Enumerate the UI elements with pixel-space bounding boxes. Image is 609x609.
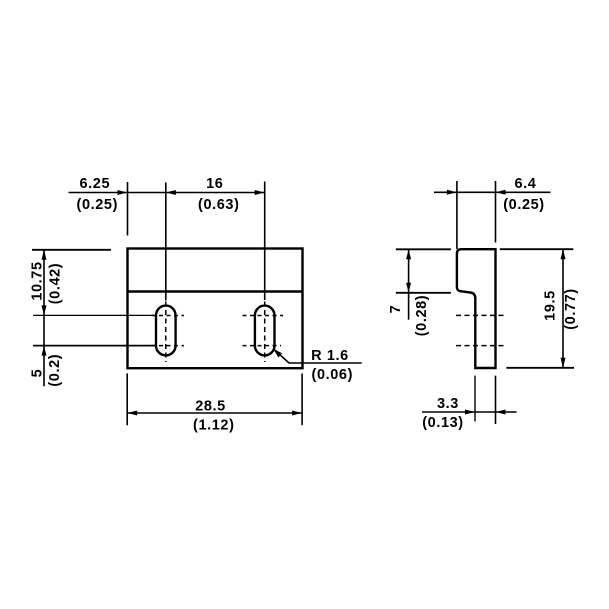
arrow tip 495.5 pointing left (outside)	[496, 410, 506, 415]
leader line for R 1.6 (diagonal + horizontal)	[274, 349, 362, 363]
slot S1 (left obround hole)	[156, 306, 176, 356]
svg-text:7: 7	[388, 305, 404, 314]
bottom dimension 28.5 extension line left	[126, 373, 128, 425]
bend/step line across front view	[128, 290, 303, 292]
side view profile outline with step	[457, 249, 496, 368]
svg-text:(0.2): (0.2)	[47, 354, 63, 387]
arrow left of 28.5	[127, 411, 137, 416]
extension of part top edge to the left	[32, 249, 111, 251]
svg-text:16: 16	[206, 176, 223, 192]
extension of side view bottom edge to the right	[506, 367, 574, 369]
extension line above left edge of side view	[456, 181, 458, 249]
dimension 6.25/16 shared dimension line	[69, 192, 265, 194]
arrow tip 495.5 pointing left (outside)	[496, 190, 506, 195]
svg-text:3.3: 3.3	[437, 396, 459, 412]
svg-text:19.5: 19.5	[542, 290, 558, 321]
centerline S1 horizontal dashes, bottom arc	[152, 345, 185, 347]
slot S2 (right obround hole)	[255, 306, 275, 356]
svg-text:(0.63): (0.63)	[198, 197, 239, 213]
dimension 3.3 extension line right (x=495.5)	[495, 376, 497, 424]
dimension 7 vertical line	[408, 249, 410, 319]
part outline: front view rectangle	[128, 249, 303, 369]
extension line of step at y=292.8	[396, 292, 451, 294]
svg-text:(0.06): (0.06)	[312, 367, 353, 383]
extension of side view top edge to the right	[500, 248, 574, 250]
svg-text:5: 5	[30, 369, 46, 378]
centerline S2 horizontal dashes, top arc	[243, 315, 284, 317]
arrow tip 475 pointing right (outside)	[465, 410, 475, 415]
dimension 3.3 extension line left (x=475)	[474, 376, 476, 422]
centerline S2 horizontal dashes, bottom arc	[243, 345, 282, 347]
arrow down at bottom of 19.5	[561, 358, 566, 368]
svg-text:(1.12): (1.12)	[193, 418, 234, 434]
arrow up at top of 19.5	[561, 249, 566, 259]
dimension line 28.5	[127, 412, 302, 414]
extension line at slot bottom-arc center y=345.6	[33, 345, 155, 347]
arrow up at top of 7	[406, 250, 411, 260]
svg-text:R 1.6: R 1.6	[311, 348, 349, 364]
bottom dimension 28.5 extension line right	[301, 373, 303, 425]
svg-text:6.25: 6.25	[79, 176, 110, 192]
arrow tip 456.9 pointing right (outside)	[447, 190, 457, 195]
svg-text:6.4: 6.4	[515, 176, 537, 192]
arrow down at bottom of 10.75	[42, 305, 47, 315]
svg-text:28.5: 28.5	[195, 398, 226, 414]
side view dashed centerline at y=315.4	[456, 314, 505, 316]
svg-text:10.75: 10.75	[30, 261, 46, 300]
svg-text:(0.42): (0.42)	[47, 263, 63, 304]
extension line at part left edge (x=127.5)	[127, 182, 129, 236]
centerline S1 vertical (solid extension from top dim, then dashed)	[165, 183, 167, 301]
leader arrowhead pointing at slot S2 bottom arc	[273, 349, 282, 358]
arrow up at top of 10.75	[42, 250, 47, 260]
svg-text:(0.25): (0.25)	[77, 197, 118, 213]
left dimension column vertical line (10.75 and 5)	[43, 250, 45, 387]
arrow tip at 127.5 pointing right (outside)	[118, 190, 128, 195]
side view dashed centerline at y=345.6	[456, 345, 505, 347]
centerline S2 vertical (solid extension from top dim, then dashed)	[264, 182, 266, 301]
arrow tip at 264.5 pointing right (16 dim)	[255, 190, 265, 195]
arrow tip at 165.8 pointing left (outside of 6.25)	[166, 190, 176, 195]
dimension 19.5 vertical line	[562, 249, 564, 368]
dimension 6.4 dimension line	[434, 191, 551, 193]
dimension line 3.3	[422, 411, 517, 413]
extension line above right edge of side view	[495, 181, 497, 243]
extension line at slot top-arc center y=315.4	[33, 314, 155, 316]
svg-text:(0.28): (0.28)	[414, 295, 430, 336]
svg-text:(0.77): (0.77)	[563, 288, 579, 329]
arrow up at top of 5	[42, 346, 47, 356]
svg-text:(0.13): (0.13)	[422, 415, 463, 431]
svg-text:(0.25): (0.25)	[503, 197, 544, 213]
extension of side view top edge to the left	[396, 248, 451, 250]
arrow down at bottom of 7	[406, 283, 411, 293]
centerline S1 horizontal dashes, top arc	[152, 315, 185, 317]
arrow right of 28.5	[292, 411, 302, 416]
